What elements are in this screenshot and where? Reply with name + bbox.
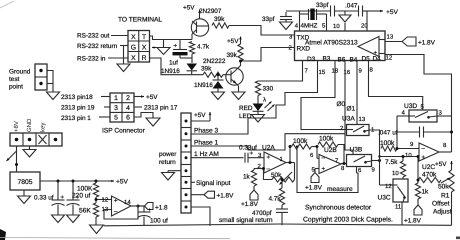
transistor Q2 2N2222 [226, 68, 243, 85]
label pin7 [305, 68, 309, 75]
wire U3A out [369, 130, 380, 157]
switch U3A [347, 125, 370, 136]
svg-text:2313 pin 1: 2313 pin 1 [61, 115, 91, 122]
tag +1.8V measure [305, 173, 353, 194]
wire U3C to rail [401, 202, 403, 226]
label 33pf left [262, 16, 275, 23]
wire pin15 phase [191, 61, 318, 135]
wire pin8 to U3D ctl [369, 61, 423, 111]
label 2N2222 [203, 58, 226, 65]
wire pot to rail [451, 192, 453, 225]
label 100K divider [77, 186, 93, 193]
label GND [26, 118, 33, 132]
diode D1 1N916 [187, 64, 198, 75]
capacitor .047uf integrator [397, 127, 452, 138]
wire Phase1 row [191, 134, 345, 150]
label Phase 1 [194, 140, 219, 147]
svg-text:+: + [322, 167, 326, 173]
label TO TERMINAL [118, 17, 162, 24]
ground TP [47, 92, 60, 100]
label Copyright [303, 217, 393, 224]
label Ground test point [9, 69, 31, 91]
label 1 Hz AM [194, 151, 219, 158]
no-connect X J3 [39, 135, 47, 144]
wire RS-232 out to terminal X [111, 35, 128, 37]
wire 1Hz AM row [191, 157, 244, 159]
wire RS-232 in to terminal X [108, 57, 128, 59]
label pin16 [344, 69, 351, 76]
svg-text:+8V: +8V [13, 121, 20, 132]
ground C1 out [52, 215, 65, 223]
label 100k integrator [380, 140, 395, 147]
svg-text:11: 11 [395, 204, 402, 211]
svg-text:100k: 100k [319, 135, 334, 142]
label U2A [262, 145, 275, 152]
label pin8 [370, 67, 374, 74]
svg-text:small signal return: small signal return [219, 217, 273, 224]
ground on T wire [157, 40, 170, 55]
resistor 470k [417, 155, 442, 183]
wire Q2 emitter [237, 84, 239, 92]
svg-text:B3: B3 [323, 56, 331, 63]
svg-text:10: 10 [405, 152, 412, 159]
switch U3C [393, 179, 408, 202]
ground J3 [23, 146, 36, 157]
svg-text:Synchronous detector: Synchronous detector [305, 205, 372, 212]
svg-text:+: + [61, 195, 65, 201]
label small signal return [219, 217, 273, 224]
svg-text:ISP Connector: ISP Connector [102, 128, 146, 135]
wire pin5 U2B [315, 169, 319, 173]
wire TP bracket [47, 71, 53, 93]
svg-text:X: X [131, 55, 136, 62]
svg-text:2313 pin 17: 2313 pin 17 [144, 105, 178, 112]
label Adjust [433, 209, 451, 216]
label pin9 [359, 68, 363, 75]
label ISP numbers [114, 95, 130, 121]
tag +1.8V row7 [191, 191, 234, 199]
switch U3B [347, 155, 372, 167]
wire pin10 U2C [378, 155, 419, 157]
svg-text:U3C: U3C [378, 195, 391, 202]
label Phase 3 [194, 128, 219, 135]
svg-text:2313 pin 19: 2313 pin 19 [61, 105, 95, 112]
connector ISP [110, 93, 134, 122]
wire pot left to pin2 [262, 167, 272, 180]
wire pin7 to LED [258, 61, 303, 82]
tag +1.8V right [404, 199, 422, 225]
wire U2D out [131, 205, 145, 207]
svg-text:1k: 1k [422, 189, 430, 196]
label pin5 U2B [312, 167, 316, 174]
label 2313 pin18 [61, 94, 110, 101]
wire RS-232 return to terminal G [120, 45, 128, 47]
label U3C [378, 195, 391, 202]
svg-text:R1: R1 [441, 193, 450, 200]
label pin14 U2D [124, 199, 131, 206]
label power return [159, 151, 177, 166]
potentiometer 50k R1 [441, 170, 454, 192]
connector J2 strip [181, 113, 191, 213]
svg-text:RS-232 return: RS-232 return [77, 43, 118, 50]
svg-text:RS-232 out: RS-232 out [77, 33, 110, 40]
wire +8V down [15, 146, 18, 172]
svg-text:2313 pin18: 2313 pin18 [61, 94, 93, 101]
power +5V Q1 [183, 5, 201, 20]
label Synchronous detector [305, 205, 372, 212]
svg-text:12: 12 [385, 183, 392, 190]
svg-text:U2B: U2B [324, 147, 337, 154]
label 100k second [319, 135, 334, 142]
label pin8 U3B [341, 165, 345, 172]
label TXD pin3 [289, 34, 310, 42]
svg-text:return: return [159, 159, 176, 166]
label pin1 U3A [371, 127, 375, 134]
label 39k pullup [227, 52, 238, 59]
label U3D [404, 103, 417, 110]
svg-text:X: X [142, 44, 147, 51]
svg-text:50k: 50k [438, 184, 449, 191]
svg-text:10: 10 [392, 170, 399, 177]
svg-text:12: 12 [386, 55, 393, 62]
ground D2 [212, 92, 225, 100]
wire output to 100k [289, 147, 291, 163]
comparator inside U1 [358, 37, 385, 57]
svg-text:RXD: RXD [297, 46, 311, 53]
svg-text:GND: GND [26, 118, 33, 132]
svg-text:4MHZ: 4MHZ [301, 23, 318, 30]
wire pin4 U3D [397, 115, 409, 117]
label pin13 U3A [359, 116, 366, 123]
svg-text:+5V: +5V [183, 5, 195, 12]
resistor 4.7k U2A [279, 178, 284, 205]
connector J3 power [10, 133, 62, 146]
label pin18 [332, 68, 339, 75]
resistor 7.5k [400, 155, 405, 179]
label pin12 U2D [102, 197, 109, 204]
resistor 4.7k [189, 42, 194, 55]
label U2C [422, 164, 435, 171]
wire Q2 collector [237, 61, 241, 70]
ground C 220uf [67, 215, 80, 223]
svg-text:+1.8V: +1.8V [404, 218, 422, 225]
svg-text:100K: 100K [77, 186, 93, 193]
capacitor .047 bypass [359, 6, 363, 17]
svg-text:Ground: Ground [9, 69, 31, 76]
switch U3D [409, 110, 437, 122]
svg-text:U2C: U2C [422, 164, 435, 171]
wire signal input row [191, 181, 195, 183]
label 4700pf [252, 210, 272, 217]
resistor 39k collector [212, 23, 229, 28]
svg-text:+5V: +5V [194, 112, 206, 119]
label pin1 U2A [280, 156, 284, 163]
label 100 uf [150, 218, 168, 225]
wire ISP pin6 ground [134, 113, 153, 119]
wire pin20 [361, 11, 368, 31]
transistor Q1 2N2907 [191, 19, 208, 40]
ground LED [252, 115, 265, 123]
label 4MHZ [301, 23, 318, 30]
label RED LED [239, 105, 253, 120]
svg-text:TO TERMINAL: TO TERMINAL [118, 17, 162, 24]
svg-text:+1.8V: +1.8V [217, 193, 235, 200]
label 220 uf [72, 193, 91, 200]
wire return branch down [123, 46, 125, 65]
wire pin12 to right column [385, 55, 452, 117]
ground 7805 [18, 190, 31, 204]
label pin6 U2B [310, 152, 314, 159]
svg-text:+1.8V: +1.8V [241, 201, 259, 208]
label U3B [350, 147, 363, 154]
svg-text:point: point [9, 84, 23, 91]
svg-text:D4: D4 [373, 56, 382, 63]
op-amp U2A [264, 152, 286, 173]
label U2B [324, 147, 337, 154]
capacitor 33pf left [280, 12, 292, 22]
label 470k [422, 172, 437, 179]
svg-text:+1.8V: +1.8V [418, 40, 436, 47]
svg-text:20: 20 [361, 23, 368, 30]
label .047 [345, 3, 358, 10]
label +5V out [116, 179, 129, 186]
svg-text:1 Hz AM: 1 Hz AM [194, 151, 219, 158]
label U3A [342, 116, 355, 123]
svg-text:+: + [422, 155, 426, 161]
label 39k base [201, 66, 212, 73]
label pin9 U3B [372, 167, 376, 174]
svg-text:Offset: Offset [432, 201, 450, 208]
label pin2 U2A [258, 163, 262, 170]
svg-text:X: X [131, 34, 136, 41]
resistor 100k first [289, 144, 318, 149]
svg-text:+: + [267, 155, 271, 161]
regulator 7805 [10, 172, 40, 190]
ground pin10 / wire [333, 11, 351, 31]
svg-text:test: test [9, 76, 20, 83]
wire integrator left [396, 116, 398, 149]
ground 33pf left [280, 22, 293, 30]
capacitor 100uf [138, 206, 153, 226]
resistor 39k pullup [238, 44, 243, 61]
wire U3B pin6 stub [356, 167, 358, 174]
label 1k right [422, 189, 430, 196]
svg-text:+1.8V: +1.8V [305, 185, 323, 192]
label key [40, 123, 47, 132]
crystal Y1 4MHz [300, 9, 327, 21]
svg-text:12: 12 [102, 197, 109, 204]
arrow at terminal X row2 [152, 46, 158, 48]
label 1uf [169, 60, 178, 67]
svg-text:T: T [142, 34, 146, 41]
svg-text:Copyright 2003 Dick Cappels.: Copyright 2003 Dick Cappels. [303, 217, 393, 224]
wire R to base row [150, 58, 204, 75]
ground 56K [90, 217, 104, 234]
label pin10 U2C [405, 152, 412, 159]
wire 39k to TXD pin 3 [229, 26, 295, 36]
svg-text:+: + [114, 199, 118, 205]
svg-text:3: 3 [114, 105, 118, 112]
label pin11 U3C [395, 204, 402, 211]
svg-text:U3A: U3A [342, 116, 355, 123]
svg-text:100 uf: 100 uf [150, 218, 168, 225]
svg-text:7805: 7805 [17, 179, 32, 186]
svg-text:4: 4 [126, 105, 130, 112]
potentiometer 50k U2A [272, 172, 295, 185]
ground ISP [146, 118, 160, 126]
tag +1.8V pin13 [385, 37, 436, 47]
wire ground rail [104, 224, 452, 226]
label pin5 U3D [421, 104, 425, 111]
capacitor 4700pf [276, 205, 288, 225]
label 2N2907 [199, 8, 222, 15]
svg-text:39k: 39k [201, 66, 212, 73]
label 50k R1 [438, 184, 449, 191]
svg-text:15: 15 [319, 69, 326, 76]
label U1 port pins [307, 56, 381, 64]
junction dots J3 [15, 138, 58, 142]
capacitor C 0.33uf out [52, 180, 65, 216]
wire top rail [286, 10, 375, 12]
svg-text:33pf: 33pf [316, 2, 329, 9]
svg-text:Phase 1: Phase 1 [194, 140, 219, 147]
label J1 letters [131, 34, 147, 62]
label 2313 pin 1 [61, 115, 110, 122]
wire pin2 U2A [254, 169, 264, 171]
svg-text:0.33 uf: 0.33 uf [34, 195, 54, 202]
svg-text:4.7k: 4.7k [197, 44, 210, 51]
label D2 1N916 [194, 82, 213, 89]
led D3 RED [253, 96, 275, 115]
label 4.7k [197, 44, 210, 51]
label pin10 U3C [392, 170, 399, 177]
svg-text:+5V: +5V [435, 161, 447, 168]
wire U3B right pin9 [372, 159, 382, 162]
label Offset [432, 201, 450, 208]
label pin4 U3D [402, 110, 406, 117]
label pin9 U2C [410, 141, 414, 148]
label pin8 U2C [443, 142, 447, 149]
wire cap to pin3 [248, 152, 264, 159]
label RXD pin2 [289, 45, 311, 53]
label phase 0 [337, 101, 346, 108]
resistor 100k integrator [381, 146, 419, 151]
svg-text:+5V: +5V [146, 94, 158, 101]
svg-text:100k: 100k [380, 140, 395, 147]
label +8V [13, 121, 20, 132]
label 0.33 uf [34, 195, 54, 202]
svg-text:D3: D3 [307, 56, 316, 63]
label 0.33uf [239, 145, 257, 152]
op-amp U2C [419, 143, 439, 161]
op-amp U1 Atmel AT90S2313 MCU [295, 31, 386, 61]
svg-text:Adjust: Adjust [433, 209, 451, 216]
label pin3 U3D [439, 110, 443, 117]
wire pin13 U2D [104, 209, 112, 211]
wire U2D feedback [104, 205, 140, 220]
label 2313 pin 19 [61, 105, 110, 112]
label .047 uf [378, 130, 398, 137]
label RS-232 in [77, 56, 106, 63]
svg-text:.047: .047 [345, 3, 358, 10]
svg-text:1k: 1k [243, 174, 251, 181]
label ISP Connector [102, 128, 146, 135]
svg-text:U3B: U3B [350, 147, 363, 154]
svg-text:220 uf: 220 uf [72, 193, 91, 200]
svg-text:14: 14 [124, 199, 131, 206]
resistor 330 [255, 81, 260, 96]
label 50k [271, 172, 282, 179]
wire 2313 pin 17 [134, 105, 178, 112]
svg-text:+5V: +5V [116, 179, 129, 186]
label 330 [263, 86, 274, 93]
wire collector to RXD pin 2 [239, 48, 295, 63]
svg-text:56K: 56K [79, 208, 91, 215]
wire U2A output [286, 161, 295, 164]
svg-text:100k: 100k [293, 138, 308, 145]
label pin6 U3B [358, 167, 362, 174]
wire +5V output [40, 180, 114, 182]
svg-text:330: 330 [263, 86, 274, 93]
svg-text:33pf: 33pf [262, 16, 275, 23]
svg-text:50k: 50k [271, 172, 282, 179]
label 56K [79, 208, 91, 215]
label Signal input [196, 180, 231, 187]
svg-text:Phase 3: Phase 3 [194, 128, 219, 135]
resistor 100K divider [93, 180, 98, 198]
svg-text:13: 13 [387, 34, 394, 41]
svg-text:RED: RED [239, 105, 253, 112]
wire T to Q1 base node [150, 36, 193, 40]
junction dots J2 [185, 120, 188, 209]
resistor 1k U2A [251, 170, 256, 186]
wire output to pot [294, 163, 296, 180]
svg-text:power: power [159, 151, 177, 158]
label pin12 U3C [385, 183, 392, 190]
wire XTAL1 pin4 [295, 11, 300, 31]
svg-text:0.33uf: 0.33uf [239, 145, 257, 152]
connector TP [35, 64, 47, 90]
label pin12 [386, 55, 393, 62]
connector J1 terminal block [128, 31, 150, 63]
wire measure net [296, 145, 358, 192]
wire +8V input arrow [7, 151, 17, 161]
diode D2 1N916 [213, 73, 224, 92]
power +5V rail arrow [375, 9, 399, 16]
op-amp U2B [319, 155, 341, 174]
op-amp U2D [112, 196, 132, 216]
svg-text:6: 6 [126, 115, 130, 122]
svg-text:.047 uf: .047 uf [378, 130, 398, 137]
svg-text:2: 2 [126, 95, 130, 102]
svg-text:1uf: 1uf [169, 60, 178, 67]
svg-text:+: + [250, 151, 254, 157]
label 100k first [293, 138, 308, 145]
svg-text:13: 13 [359, 116, 366, 123]
label pin2 U3A [340, 125, 344, 132]
svg-text:LED: LED [239, 113, 252, 120]
label pin15 [319, 69, 326, 76]
power +5V Q2 [227, 37, 242, 46]
wire junction to pin6 [316, 145, 320, 158]
svg-text:Signal input: Signal input [196, 180, 231, 187]
svg-text:+1.8: +1.8 [155, 205, 168, 212]
wire U2C out [439, 116, 453, 152]
wire pin3 U3D [437, 115, 452, 117]
svg-text:1N916: 1N916 [194, 82, 213, 89]
label 4.7k U2A [269, 196, 282, 203]
resistor 1k right [415, 179, 420, 200]
